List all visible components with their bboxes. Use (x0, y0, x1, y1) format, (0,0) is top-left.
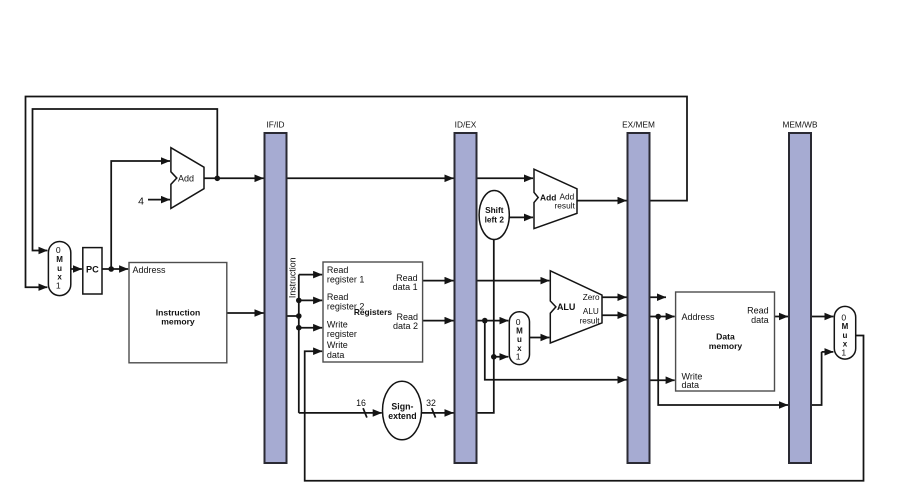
wire: ALU result passthrough to MEM/WB (658, 317, 788, 406)
svg-text:PC: PC (86, 264, 99, 274)
wire: PC+4 from ID/EX to second Add (477, 177, 534, 179)
svg-text:data 1: data 1 (393, 282, 418, 292)
wire: instruction memory to IF/ID (227, 312, 264, 314)
junction dot instruction trunk read register 2 (296, 298, 302, 304)
wire: instruction trunk from IF/ID (287, 275, 299, 413)
svg-text:Address: Address (682, 312, 716, 322)
PC register (83, 248, 102, 294)
svg-text:result: result (580, 316, 601, 325)
svg-text:0: 0 (516, 317, 521, 327)
svg-text:16: 16 (356, 398, 366, 408)
mux M3 (write-back mux) (834, 306, 855, 359)
svg-text:register 1: register 1 (327, 275, 365, 285)
wire: constant 4 into Add (148, 199, 170, 201)
wire: PC to instruction memory address (102, 268, 128, 270)
wire: ALU result from MEM/WB to mux M3 input 1 (811, 352, 833, 405)
wire: read data 2 to ID/EX (423, 320, 454, 322)
ALU (550, 271, 602, 343)
pipeline register MEM/WB (782, 119, 817, 463)
wire: PC+4 from Add output to PC mux input 0 (33, 109, 218, 251)
svg-text:result: result (555, 200, 576, 210)
mux M1 (PC source mux) (48, 242, 70, 296)
svg-text:Address: Address (133, 265, 167, 275)
svg-text:data 2: data 2 (393, 321, 418, 331)
adder Add (PC+4) (171, 148, 204, 209)
wire: Add result to EX/MEM (577, 200, 627, 202)
svg-text:extend: extend (388, 411, 416, 421)
wire: read data 1 from ID/EX to ALU (477, 280, 550, 282)
junction dot read data 2 branch (482, 318, 488, 324)
svg-text:Sign-: Sign- (391, 401, 413, 411)
svg-text:Instruction: Instruction (288, 257, 298, 298)
mux M2 (ALU source mux) (509, 312, 529, 365)
wire: ALU result from EX/MEM to data memory address (650, 316, 675, 318)
wire: mux M1 output to PC (71, 268, 82, 270)
junction dot sign-extend branch to mux (491, 354, 497, 360)
wire: sign-extended immediate to shift left 2 and ALU mux (477, 240, 509, 413)
instruction memory (129, 263, 227, 363)
wire: PC+4 from IF/ID to ID/EX (287, 177, 454, 179)
svg-text:1: 1 (516, 352, 521, 362)
svg-text:IF/ID: IF/ID (267, 119, 285, 129)
svg-text:M: M (56, 255, 63, 264)
wire: read data 1 to ID/EX (423, 280, 454, 282)
sign-extend unit (383, 381, 422, 440)
svg-text:register: register (327, 329, 357, 339)
svg-text:left 2: left 2 (485, 215, 505, 225)
pipeline register ID/EX (455, 119, 477, 463)
wire: instruction to read register 1 (299, 274, 322, 276)
wire: mux M2 output to ALU (530, 337, 550, 339)
svg-text:EX/MEM: EX/MEM (622, 119, 655, 129)
wire: read data 2 down to EX/MEM write data (485, 321, 627, 380)
junction dot at Add output (215, 176, 221, 182)
junction dot instruction trunk write register (296, 325, 302, 331)
svg-text:0: 0 (841, 312, 846, 322)
svg-text:Registers: Registers (354, 307, 393, 317)
svg-text:memory: memory (709, 341, 743, 351)
shift left 2 unit (479, 191, 509, 240)
junction dot at PC output (108, 266, 114, 272)
pipeline register EX/MEM (622, 119, 655, 463)
svg-text:u: u (843, 331, 848, 340)
bus slash 32 (432, 408, 436, 417)
svg-text:data: data (682, 380, 700, 390)
wire: instruction to sign-extend (299, 412, 382, 414)
svg-text:Add: Add (178, 173, 194, 183)
svg-text:data: data (327, 350, 345, 360)
svg-text:1: 1 (841, 348, 846, 358)
wire: instruction to write register (299, 327, 322, 329)
wire: shift left 2 to second Add (509, 216, 533, 218)
svg-text:u: u (517, 335, 522, 344)
wire: read data 2 from ID/EX to ALU mux input 0 (477, 320, 509, 322)
wire: ALU result to EX/MEM (602, 314, 627, 316)
svg-text:data: data (751, 315, 769, 325)
svg-text:ALU: ALU (557, 302, 576, 312)
svg-text:1: 1 (56, 280, 61, 290)
wire: branch target from EX/MEM Add result to PC mux input 1 (26, 97, 688, 288)
svg-text:Shift: Shift (485, 205, 504, 215)
wire: zero stub out of EX/MEM (650, 296, 667, 298)
svg-text:M: M (842, 322, 849, 331)
bus slash 16 (363, 408, 367, 417)
pipeline register IF/ID (265, 119, 287, 463)
data memory (676, 292, 775, 391)
wire: write data from EX/MEM to data memory (650, 379, 675, 381)
junction dot instruction trunk main (296, 313, 302, 319)
svg-text:u: u (57, 264, 62, 273)
svg-text:memory: memory (161, 317, 195, 327)
wire: write-back from mux M3 to registers write data (305, 336, 864, 481)
adder Add (branch target) (534, 169, 577, 228)
wire: data memory read data to MEM/WB (775, 316, 789, 318)
svg-text:M: M (516, 327, 523, 336)
svg-text:Write: Write (327, 340, 348, 350)
svg-text:32: 32 (426, 398, 436, 408)
svg-text:0: 0 (56, 245, 61, 255)
registers block (323, 262, 423, 362)
junction dot ALU result at data memory (655, 314, 661, 320)
wire: sign-extend output to ID/EX (422, 412, 454, 414)
wire: instruction to read register 2 (299, 299, 322, 301)
svg-text:Zero: Zero (583, 293, 600, 302)
wire: ALU zero to EX/MEM (602, 296, 627, 298)
svg-text:4: 4 (138, 196, 144, 208)
svg-text:MEM/WB: MEM/WB (782, 119, 817, 129)
svg-text:ID/EX: ID/EX (455, 119, 477, 129)
wire: PC up to Add top input (111, 161, 170, 269)
wire: read data from MEM/WB to mux M3 input 0 (811, 316, 833, 318)
wire: Add output to IF/ID (204, 177, 264, 179)
svg-text:ALU: ALU (583, 307, 599, 316)
